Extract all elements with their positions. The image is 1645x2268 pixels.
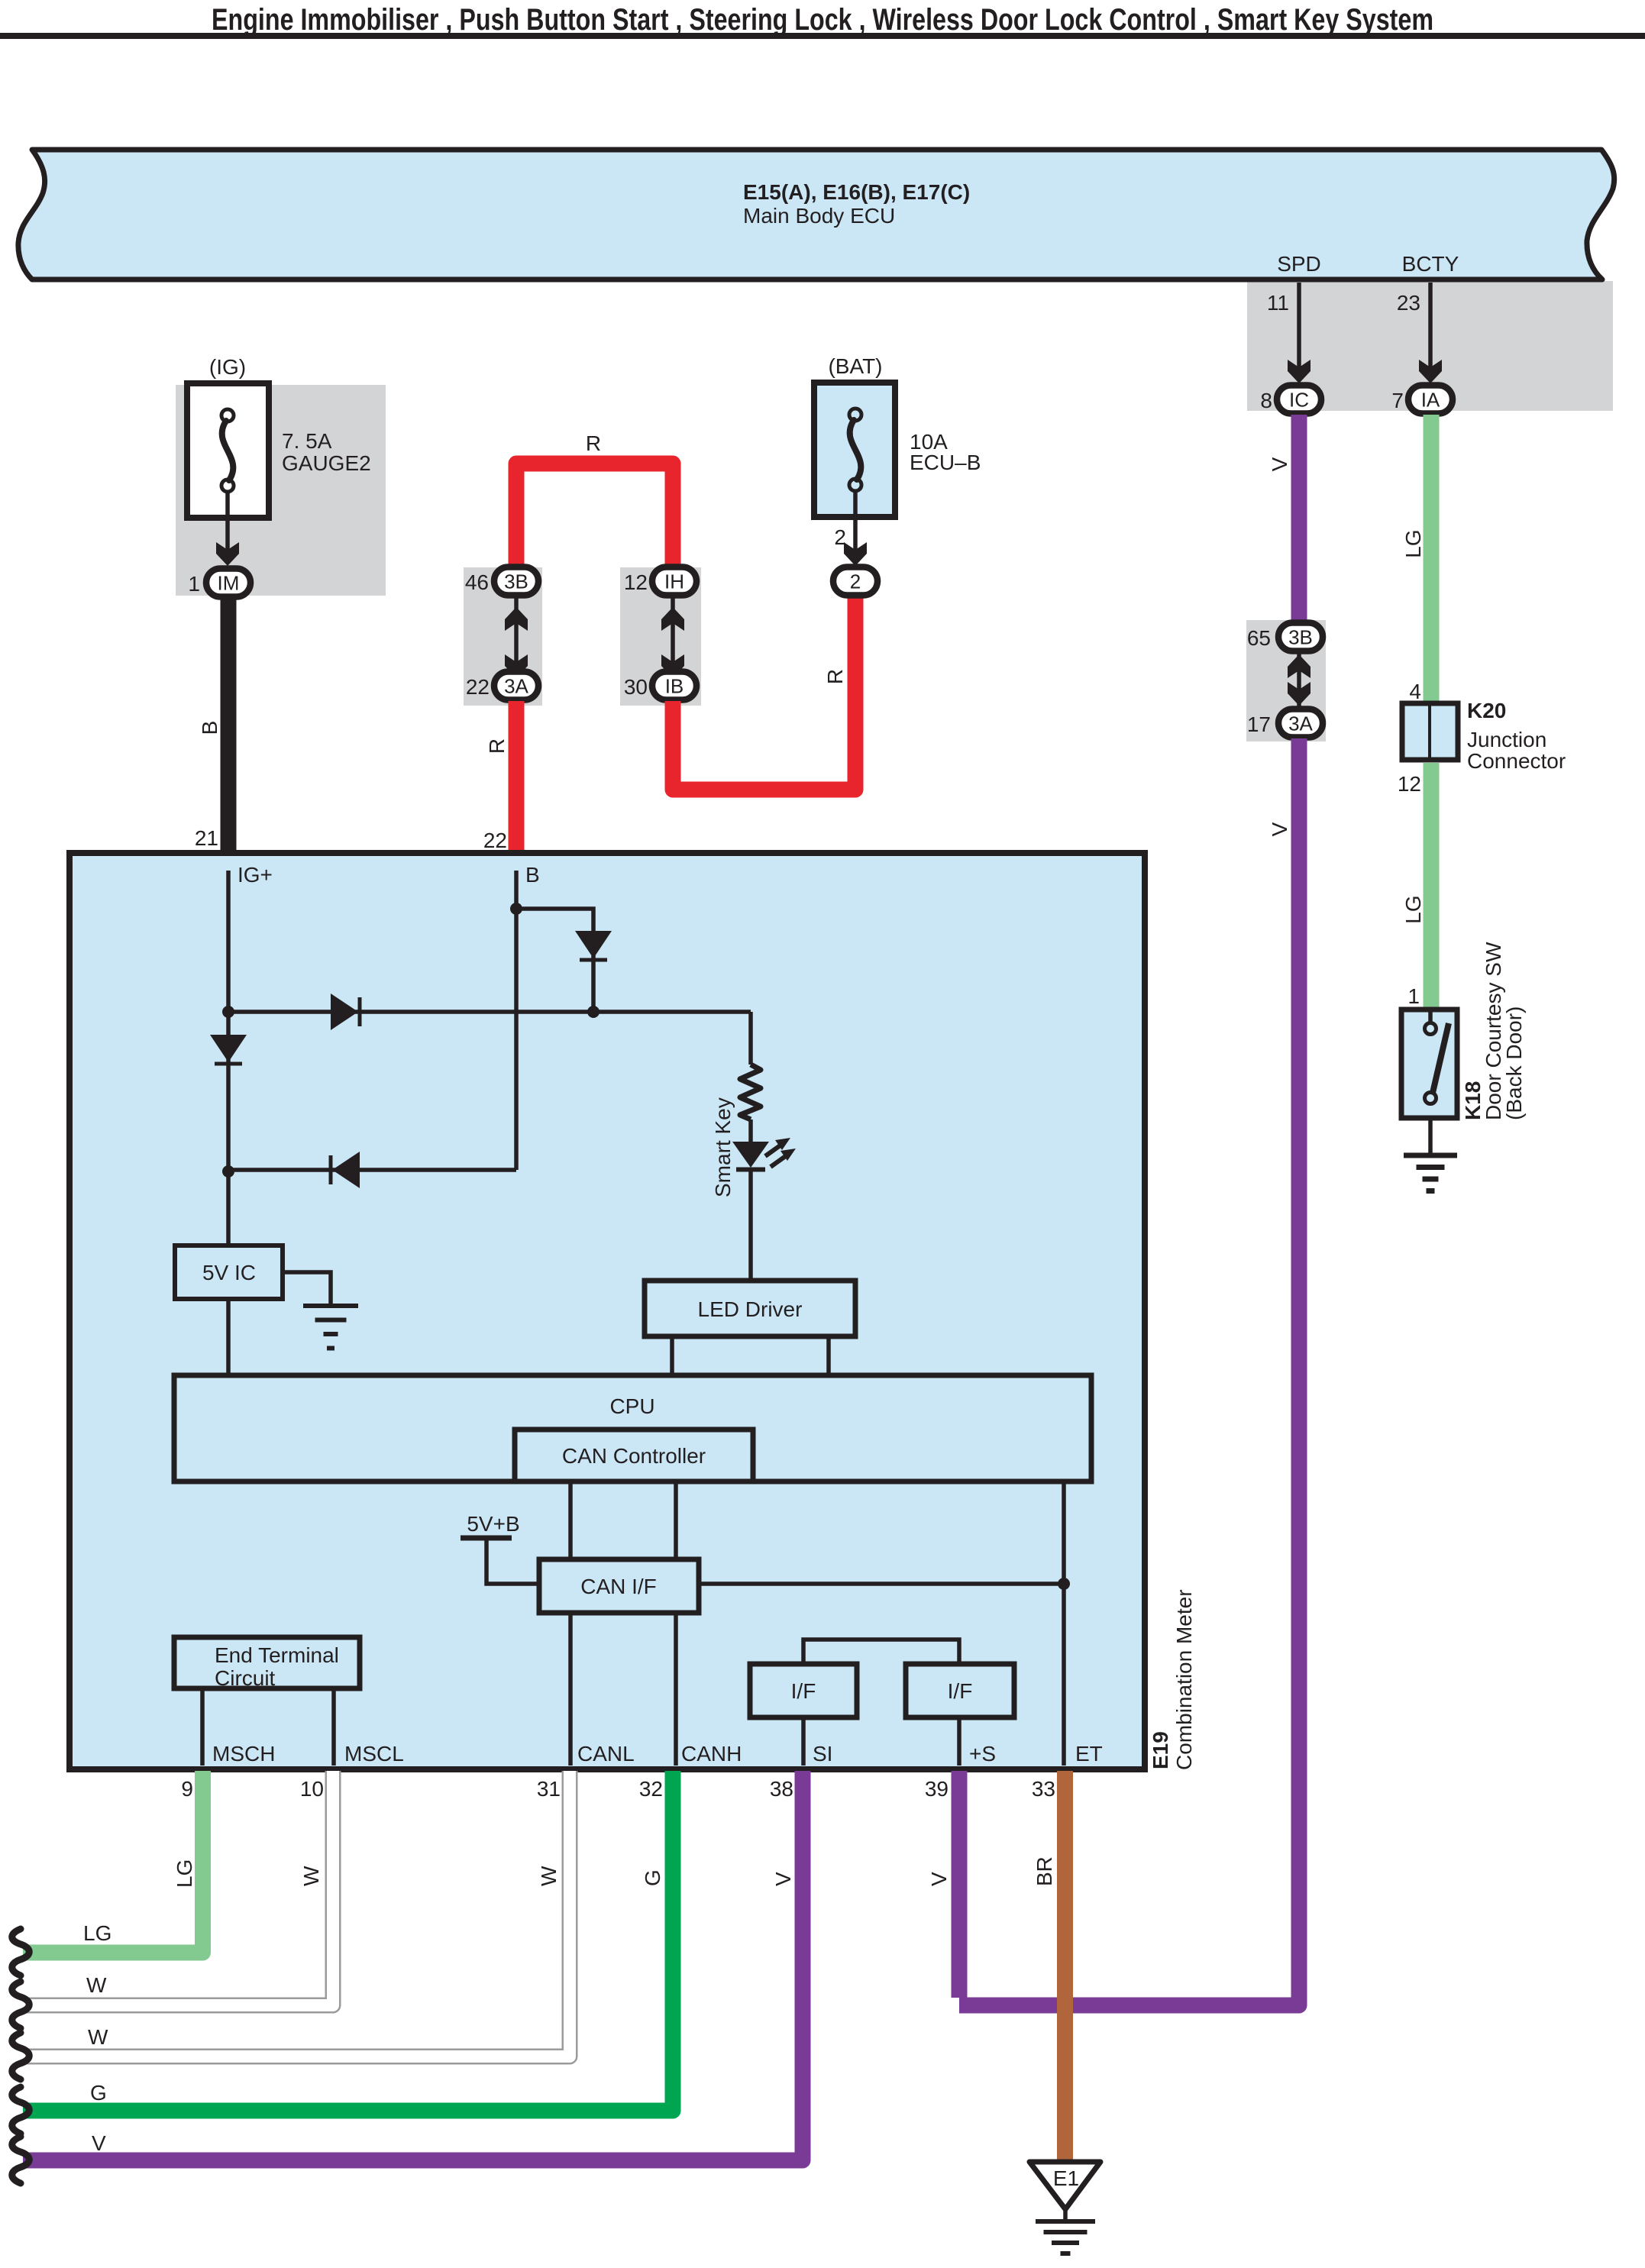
svg-text:22: 22 (466, 675, 490, 699)
wire R top jumper (516, 464, 673, 569)
combination meter box E19 (69, 853, 1145, 1769)
pin label MSCL (344, 1742, 404, 1766)
svg-text:Circuit: Circuit (215, 1666, 276, 1690)
pin 9 number (181, 1777, 193, 1801)
svg-text:1: 1 (1407, 984, 1420, 1008)
pin label SI (813, 1742, 832, 1766)
svg-text:Combination Meter: Combination Meter (1172, 1589, 1196, 1770)
svg-text:W: W (86, 1973, 107, 1997)
svg-text:ET: ET (1075, 1742, 1103, 1766)
svg-text:R: R (586, 431, 601, 455)
svg-text:LG: LG (1401, 529, 1425, 557)
diode D4 (left) (331, 1152, 360, 1188)
diode D2 (right) (331, 993, 360, 1030)
CPU block (174, 1375, 1091, 1481)
wires CAN to pins 31/32 (570, 1613, 676, 1766)
wire label W (row2) (88, 2025, 108, 2049)
svg-text:Main Body ECU: Main Body ECU (743, 204, 895, 228)
connector IB pin 30 (624, 672, 696, 700)
svg-text:38: 38 (770, 1777, 793, 1801)
svg-text:12: 12 (1398, 772, 1421, 796)
junction connector K20 (1402, 699, 1566, 773)
ground (5V IC) (303, 1306, 358, 1349)
svg-text:CAN I/F: CAN I/F (580, 1575, 657, 1598)
wire color label LG (pin9) (173, 1859, 196, 1888)
pin 10 number (300, 1777, 324, 1801)
svg-text:33: 33 (1032, 1777, 1055, 1801)
wire color label G (pin32) (641, 1869, 664, 1886)
pin label CANH (681, 1742, 742, 1766)
wire color label W (pin31) (537, 1866, 561, 1886)
svg-text:E1: E1 (1053, 2166, 1079, 2190)
CAN I/F block (539, 1559, 699, 1613)
svg-text:IA: IA (1421, 389, 1440, 412)
wire V from 3A down to pin 39 elbow (959, 738, 1299, 2005)
svg-text:22: 22 (483, 829, 507, 852)
connector panel (SPD/BCTY pins) (1247, 281, 1613, 411)
wire G pin32 (23, 1771, 673, 2111)
svg-text:21: 21 (195, 826, 218, 850)
pin 22 label B (525, 863, 540, 887)
wire B to diode branch (516, 909, 593, 1012)
svg-text:3A: 3A (504, 675, 528, 698)
wire label G (row) (90, 2081, 107, 2105)
svg-text:1: 1 (188, 572, 200, 596)
svg-text:CAN Controller: CAN Controller (562, 1444, 706, 1468)
wire CPU to ET (1062, 1481, 1066, 1766)
wire V from IC to 3B (1291, 415, 1307, 622)
svg-text:LG: LG (173, 1859, 196, 1888)
wire BR pin33 (1057, 1771, 1073, 2161)
wire 5V IC to CPU (226, 1299, 231, 1375)
junction dot IG+ upper (222, 1006, 234, 1018)
connector panel IH/IB (620, 567, 701, 706)
meter name E19 Combination Meter (1149, 1589, 1196, 1770)
svg-text:R: R (485, 738, 509, 754)
wires CAN Controller to CAN I/F (570, 1481, 676, 1559)
svg-text:W: W (299, 1866, 323, 1886)
svg-text:LG: LG (83, 1921, 111, 1945)
node IG+ line (226, 871, 231, 1248)
wire V pin39 down (952, 1771, 968, 1998)
wire W pin31 (23, 1771, 570, 2056)
End Terminal Circuit block (174, 1637, 360, 1690)
junction arrows 3B-3A (1288, 652, 1311, 708)
connector 3B pin 46 (465, 567, 538, 596)
I/F block (+S) (906, 1664, 1014, 1717)
LED Driver block (645, 1281, 855, 1336)
fuse 7.5A GAUGE2 (IG) (187, 355, 371, 518)
label 5V+B (461, 1512, 520, 1538)
svg-text:IH: IH (664, 570, 684, 593)
wire color label LG (lower) (1401, 895, 1425, 923)
wire B from IM to pin 21 (221, 598, 237, 858)
svg-text:LG: LG (1401, 895, 1425, 923)
junction dot IG+ lower (222, 1165, 234, 1178)
svg-text:5V IC: 5V IC (202, 1261, 256, 1284)
svg-text:5V+B: 5V+B (467, 1512, 519, 1536)
connector 3A pin 17 (1247, 709, 1323, 738)
wire color label BR (pin33) (1033, 1856, 1056, 1886)
diode D3 (down, on IG+) (210, 1035, 247, 1064)
junction dot B (510, 903, 522, 915)
connector 3B pin 65 (1247, 623, 1323, 651)
wire color label W (pin10) (299, 1866, 323, 1886)
switch K18 name text (1482, 942, 1526, 1120)
svg-text:30: 30 (624, 675, 648, 699)
wire 5V+B to CAN I/F (486, 1538, 539, 1584)
label Smart Key (711, 1097, 735, 1197)
wire I/F tops jumper (803, 1640, 959, 1664)
junction arrows IH-IB (661, 596, 684, 689)
connector panel 3B/3A (65-17) (1246, 620, 1326, 741)
pin 32 number (639, 1777, 663, 1801)
wire color label R (left) (485, 738, 509, 754)
svg-text:7. 5A: 7. 5A (282, 429, 332, 453)
svg-text:CPU: CPU (609, 1394, 654, 1418)
wire row1 (228, 1010, 751, 1014)
pin 31 number (537, 1777, 561, 1801)
svg-text:B: B (525, 863, 540, 887)
fuse 10A ECU-B (BAT) (814, 354, 981, 517)
continuation squiggle W1 (12, 1982, 30, 2028)
svg-text:(BAT): (BAT) (828, 354, 882, 378)
continuation squiggle V (12, 2137, 30, 2183)
CAN Controller block (515, 1430, 753, 1481)
svg-text:E19: E19 (1149, 1731, 1172, 1769)
connector 3A pin 22 (466, 672, 538, 700)
pin 1 label K18 (1407, 984, 1420, 1008)
wire V pin38 (23, 1771, 803, 2160)
svg-text:Engine Immobiliser , Push Butt: Engine Immobiliser , Push Button Start ,… (212, 3, 1433, 37)
continuation squiggle G (12, 2087, 30, 2134)
wire to resistor (748, 1012, 753, 1065)
pin 21 label (195, 826, 218, 850)
wire row2 (228, 1168, 516, 1172)
svg-text:R: R (823, 669, 847, 684)
svg-text:G: G (90, 2081, 107, 2105)
svg-text:Connector: Connector (1467, 749, 1566, 773)
connector IA pin 7 (1391, 386, 1453, 414)
wire BCTY pin23 to IA (1419, 283, 1442, 383)
wire color label B (198, 721, 221, 735)
wire LG from K20 to K18 (1424, 763, 1440, 1011)
svg-text:BCTY: BCTY (1402, 252, 1459, 276)
wire color label V (pin38) (771, 1872, 795, 1886)
wires End Terminal to pins (202, 1688, 334, 1766)
svg-text:V: V (92, 2131, 106, 2155)
svg-text:B: B (198, 721, 221, 735)
pin 33 number (1032, 1777, 1055, 1801)
pin 21 label IG+ (238, 863, 273, 887)
connector panel 3B/3A (46-22) (464, 567, 542, 706)
svg-text:+S: +S (969, 1742, 996, 1766)
svg-text:3A: 3A (1288, 712, 1313, 735)
pin label BCTY (1402, 252, 1459, 276)
pin 38 number (770, 1777, 793, 1801)
svg-text:W: W (537, 1866, 561, 1886)
5V IC block (175, 1245, 283, 1299)
svg-text:MSCH: MSCH (212, 1742, 275, 1766)
svg-text:3B: 3B (504, 570, 528, 593)
svg-text:65: 65 (1247, 626, 1271, 650)
pin label +S (969, 1742, 996, 1766)
wire W pin10 (23, 1771, 333, 2005)
svg-text:Junction: Junction (1467, 728, 1546, 751)
svg-text:V: V (1268, 457, 1291, 471)
Main Body ECU E15(A) E16(B) E17(C) (18, 150, 1614, 279)
connector IH pin 12 (624, 567, 696, 596)
svg-text:SI: SI (813, 1742, 832, 1766)
ground below K18 (1404, 1118, 1457, 1191)
wire label V (row) (92, 2131, 106, 2155)
wire I/F to SI pin (801, 1717, 806, 1766)
svg-text:3B: 3B (1288, 626, 1313, 649)
wire fuse BAT pin 2 (834, 493, 867, 566)
wire label LG (row) (83, 1921, 111, 1945)
connector IM pin 1 (188, 569, 250, 597)
pin 23 label (1397, 291, 1420, 315)
svg-text:32: 32 (639, 1777, 663, 1801)
I/F block (SI) (750, 1664, 857, 1717)
fuse panel (IG) (176, 385, 386, 596)
ground E1 (1029, 2162, 1100, 2253)
pin 12 label (1398, 772, 1421, 796)
pin label CANL (577, 1742, 635, 1766)
continuation squiggle W2 (12, 2033, 30, 2079)
wire R from IB to connector 2 (673, 594, 855, 790)
pin label MSCH (212, 1742, 275, 1766)
connector IC pin 8 (1260, 386, 1321, 414)
wire color label LG (1401, 529, 1425, 557)
junction dot ET (1058, 1578, 1070, 1590)
diode D1 (down, from B) (575, 931, 612, 960)
wire LG pin9 (23, 1771, 203, 1953)
svg-text:V: V (927, 1872, 951, 1886)
pin 39 number (925, 1777, 949, 1801)
wire SPD pin11 to IC (1288, 283, 1311, 383)
svg-text:GAUGE2: GAUGE2 (282, 451, 371, 475)
pin label ET (1075, 1742, 1103, 1766)
pin label SPD (1277, 252, 1321, 276)
svg-text:K20: K20 (1467, 699, 1506, 722)
LED Smart Key indicator (732, 1138, 796, 1170)
svg-text:W: W (88, 2025, 108, 2049)
svg-text:IC: IC (1289, 389, 1309, 412)
svg-text:BR: BR (1033, 1856, 1056, 1886)
svg-text:E15(A), E16(B), E17(C): E15(A), E16(B), E17(C) (743, 180, 970, 204)
wire label W (row1) (86, 1973, 107, 1997)
svg-text:G: G (641, 1869, 664, 1886)
svg-text:CANL: CANL (577, 1742, 635, 1766)
wire color label V (below 3A) (1268, 822, 1291, 836)
pin 22 label (meter) (483, 829, 507, 852)
svg-text:4: 4 (1409, 680, 1421, 703)
svg-text:17: 17 (1247, 712, 1271, 736)
svg-text:MSCL: MSCL (344, 1742, 404, 1766)
svg-text:IG+: IG+ (238, 863, 273, 887)
junction dot D1 out (587, 1006, 600, 1018)
svg-text:I/F: I/F (791, 1679, 816, 1703)
svg-text:V: V (771, 1872, 795, 1886)
svg-text:I/F: I/F (948, 1679, 973, 1703)
svg-text:(Back Door): (Back Door) (1502, 1006, 1526, 1120)
pin 11 label (1267, 291, 1289, 315)
wire color label R (top) (586, 431, 601, 455)
svg-text:Smart Key: Smart Key (711, 1097, 735, 1197)
svg-text:V: V (1268, 822, 1291, 836)
svg-text:SPD: SPD (1277, 252, 1321, 276)
svg-text:End Terminal: End Terminal (215, 1643, 339, 1667)
node B line (514, 871, 519, 1170)
svg-text:2: 2 (850, 570, 861, 593)
wire I/F to +S pin (957, 1717, 961, 1766)
svg-text:LED Driver: LED Driver (698, 1297, 803, 1321)
switch K18 Door Courtesy SW (Back Door) (1401, 1010, 1485, 1120)
title rule (0, 33, 1645, 39)
svg-text:8: 8 (1260, 389, 1272, 412)
wire color label V (pin39) (927, 1872, 951, 1886)
junction arrows 3B-3A (46-22) (505, 596, 528, 689)
svg-text:23: 23 (1397, 291, 1420, 315)
svg-text:12: 12 (624, 570, 648, 594)
wire resistor to LED (748, 1119, 753, 1142)
wire 5V IC to ground (283, 1272, 331, 1306)
svg-text:IM: IM (218, 572, 240, 595)
svg-text:ECU–B: ECU–B (910, 451, 981, 474)
svg-text:9: 9 (181, 1777, 193, 1801)
svg-text:31: 31 (537, 1777, 561, 1801)
svg-text:10: 10 (300, 1777, 324, 1801)
svg-text:39: 39 (925, 1777, 949, 1801)
page title (212, 3, 1433, 37)
wire CAN I/F to ET node (699, 1581, 1064, 1586)
svg-text:7: 7 (1391, 389, 1404, 412)
wire R from 3A to pin 22 (509, 701, 525, 854)
resistor (LED series) (740, 1065, 761, 1119)
wires LED Driver to CPU (672, 1336, 829, 1375)
pin 4 label (1409, 680, 1421, 703)
wire LED to LED Driver (748, 1169, 753, 1281)
wire color label R (right) (823, 669, 847, 684)
svg-text:CANH: CANH (681, 1742, 742, 1766)
svg-text:IB: IB (665, 675, 684, 698)
connector 2 (833, 567, 877, 596)
wire fuse IG to IM (216, 493, 239, 566)
svg-text:2: 2 (834, 525, 846, 549)
wire color label V (1268, 457, 1291, 471)
wire LG from IA to K20 (1424, 415, 1440, 705)
svg-text:46: 46 (465, 570, 489, 594)
continuation squiggle LG (12, 1929, 30, 1976)
svg-text:(IG): (IG) (209, 355, 246, 379)
svg-text:11: 11 (1267, 291, 1289, 315)
